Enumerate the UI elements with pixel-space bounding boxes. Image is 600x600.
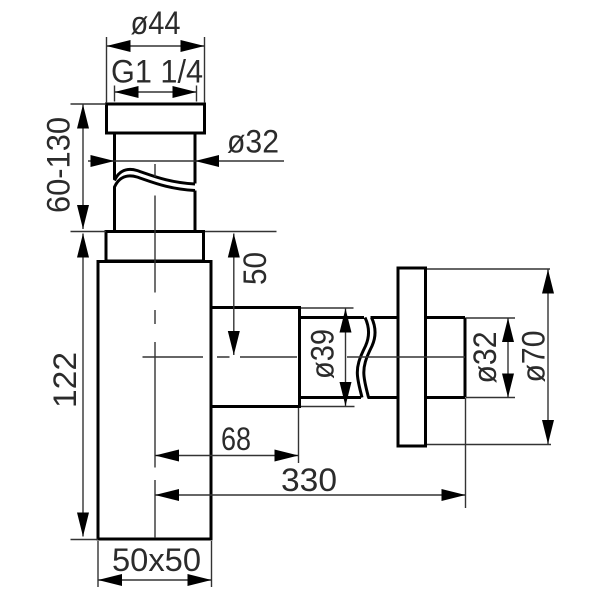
svg-text:G1 1/4: G1 1/4 <box>111 54 203 90</box>
svg-text:ø32: ø32 <box>467 332 503 384</box>
svg-text:68: 68 <box>221 421 251 457</box>
svg-text:ø32: ø32 <box>227 124 279 160</box>
svg-text:122: 122 <box>47 352 83 408</box>
svg-text:330: 330 <box>281 462 337 498</box>
svg-text:50x50: 50x50 <box>112 542 201 578</box>
svg-text:ø70: ø70 <box>516 331 552 383</box>
svg-text:60-130: 60-130 <box>41 117 77 213</box>
svg-text:ø39: ø39 <box>305 329 341 379</box>
svg-text:50: 50 <box>237 252 273 285</box>
svg-text:ø44: ø44 <box>131 5 181 41</box>
